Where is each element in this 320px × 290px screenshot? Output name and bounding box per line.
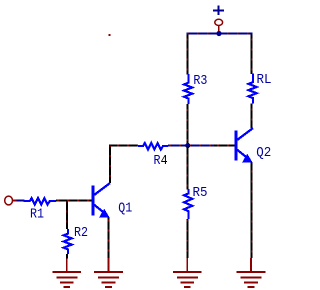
junction dot mid [185,143,190,148]
wire: branch down to R2 [66,202,68,230]
wire: R3 down to mid junction [186,104,188,145]
ground below Q2 [237,258,266,287]
wire: R2 to ground [66,254,68,259]
resistor R5 [184,189,192,219]
svg-text:Q1: Q1 [118,201,132,217]
stray grid dot [109,34,111,36]
resistor R1 [24,198,56,204]
resistor R3 [184,74,192,104]
power terminal circle [215,19,223,25]
wire: R1 to Q1 base [56,200,92,202]
power terminal stem [218,26,220,34]
resistor R4 [138,143,168,149]
resistor RL [249,74,257,104]
wire: input to R1 [17,200,25,202]
power plus symbol [213,6,224,16]
ground below R2 [53,259,82,288]
input terminal circle [5,196,13,205]
svg-text:R3: R3 [193,73,207,89]
top rail wire [186,33,252,35]
junction dot at power terminal [216,31,221,36]
wire: rail down to RL [251,35,253,75]
svg-text:4: 4 [161,153,168,169]
wire: junction to Q2 base (black) [214,145,235,147]
svg-text:RL: RL [257,72,272,88]
resistor R2 [64,229,72,254]
input terminal lead [13,200,17,202]
ground below Q1 [94,258,123,287]
transistor Q1 [93,183,110,217]
wire: Q1 emitter to ground [108,218,110,259]
wire: R4 to junction (navy) [168,145,214,147]
wire: rail down to R3 [186,35,188,75]
svg-text:Q2: Q2 [256,145,271,161]
transistor Q2 [236,128,253,162]
ground below R5 [173,258,202,287]
svg-text:R5: R5 [193,185,208,201]
svg-text:R1: R1 [30,207,44,223]
wire: junction down to R5 [186,147,188,190]
svg-text:R2: R2 [74,225,88,241]
wire: corner from Q1 collector up to R4 [110,146,138,184]
wire: RL down to Q2 collector [251,104,253,129]
wire: R5 to ground [186,219,188,258]
wire: Q2 emitter to ground [251,163,253,259]
